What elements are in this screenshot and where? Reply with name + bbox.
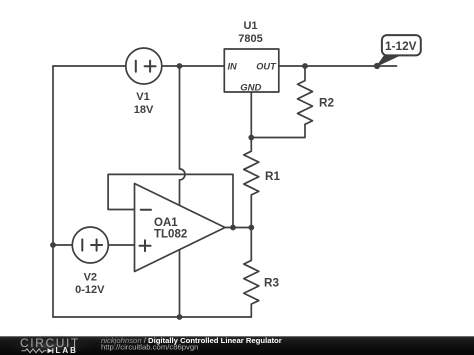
voltage source V2 circle: [72, 227, 108, 263]
resistor R1: [244, 138, 259, 228]
svg-text:http://circuitlab.com/c86pvgn: http://circuitlab.com/c86pvgn: [101, 343, 198, 352]
junction node V2 on left rail: [50, 242, 56, 248]
footer bar: [0, 336, 474, 355]
svg-text:18V: 18V: [134, 104, 154, 116]
V1 polarity marks: [136, 61, 156, 72]
svg-text:1-12V: 1-12V: [385, 39, 417, 53]
svg-text:TL082: TL082: [154, 229, 187, 241]
wire V1 to U1 IN: [162, 65, 225, 67]
wire U1 GND down to node B: [250, 92, 252, 138]
svg-text:7805: 7805: [238, 33, 262, 45]
op-amp non-inverting mark: [140, 240, 151, 251]
svg-text:U1: U1: [243, 20, 257, 32]
op-amp inverting mark: [141, 209, 151, 211]
footer logo glow: [0, 335, 105, 355]
logo diode symbol: [48, 348, 53, 353]
junction node at output terminal: [374, 63, 380, 69]
V2 polarity marks: [82, 239, 102, 250]
svg-text:R2: R2: [319, 97, 334, 110]
junction node at R2 top: [302, 63, 308, 69]
resistor R3: [244, 228, 259, 318]
junction node C R1/R3/output: [248, 225, 254, 231]
regulator U1 box: [224, 49, 278, 92]
svg-text:V1: V1: [136, 91, 149, 103]
svg-text:OUT: OUT: [256, 61, 277, 71]
wire feedback from output up and left to inverting input: [108, 174, 233, 227]
svg-text:IN: IN: [228, 61, 238, 71]
svg-text:V2: V2: [84, 271, 97, 283]
op-amp OA1 triangle: [135, 184, 226, 272]
wire top-left from V1 to left rail: [53, 65, 126, 67]
junction node at V1 output: [177, 63, 183, 69]
svg-text:R1: R1: [265, 170, 280, 183]
junction node mid vertical on bottom rail: [177, 314, 183, 320]
resistor R2: [298, 66, 313, 124]
svg-text:LAB: LAB: [56, 346, 78, 355]
wire left rail to V2: [53, 244, 72, 246]
wire bottom rail: [53, 316, 251, 318]
junction node B GND/R1/R2: [248, 135, 254, 141]
svg-text:OA1: OA1: [154, 217, 178, 229]
svg-text:0-12V: 0-12V: [75, 284, 105, 296]
wire left rail: [52, 66, 54, 317]
output flag pointer: [377, 55, 400, 66]
junction node at feedback tap: [230, 225, 236, 231]
output flag box 1-12V: [382, 35, 421, 55]
wire op-amp output to node C: [225, 227, 251, 229]
wire V2 plus to op-amp non-inverting input: [108, 244, 134, 246]
wire U1 OUT to output terminal: [279, 65, 397, 67]
svg-text:R3: R3: [264, 276, 279, 289]
svg-text:GND: GND: [240, 82, 261, 93]
wire middle vertical from node A down to bottom rail (hops feedback wire): [180, 66, 186, 317]
logo resistor squiggle: [22, 349, 47, 353]
voltage source V1 circle: [126, 48, 162, 84]
wire node B to R2 bottom: [251, 124, 305, 137]
